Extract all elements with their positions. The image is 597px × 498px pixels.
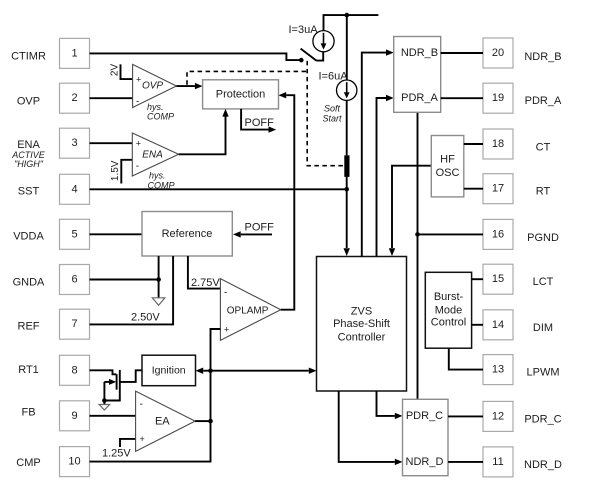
svg-text:16: 16 xyxy=(492,228,504,240)
svg-text:Reference: Reference xyxy=(162,228,213,240)
svg-text:ZVS: ZVS xyxy=(351,306,372,318)
wire CTIMR from pin1 to switch xyxy=(90,53,302,60)
current source I1 I=3uA xyxy=(313,31,334,52)
wire VDDA pin5 to Reference xyxy=(90,233,143,235)
block Protection xyxy=(203,80,279,109)
svg-text:"HIGH": "HIGH" xyxy=(14,159,44,169)
wire NDR_B to pin20 xyxy=(441,52,483,54)
junction PGND node xyxy=(415,232,420,237)
wire PDR_A box down to PDR_C box with PGND branch xyxy=(417,112,419,399)
pin 18 CT xyxy=(483,129,513,159)
wire Q1 bulk down xyxy=(103,382,105,405)
wire Burst to LCT pin15 xyxy=(472,278,483,280)
wire 1.5V reference stub to ENA minus input xyxy=(121,160,132,184)
wire ENA pin3 input xyxy=(90,142,133,144)
transistor Q1 gate bar xyxy=(116,374,118,390)
svg-text:17: 17 xyxy=(492,183,504,195)
svg-text:PDR_C: PDR_C xyxy=(406,410,443,422)
svg-text:1.25V: 1.25V xyxy=(102,448,131,460)
wire ZVS to NDR_B driver xyxy=(362,53,386,257)
junction EA output node xyxy=(208,419,213,424)
block PDR_C NDR_D drivers xyxy=(403,399,449,475)
pin 11 NDR_D xyxy=(483,447,513,477)
wire bar to SST node xyxy=(346,177,348,189)
transistor Q1 channel bar xyxy=(119,370,121,394)
wire Burst to DIM pin14 xyxy=(472,324,483,326)
svg-text:NDR_B: NDR_B xyxy=(401,47,438,59)
pin 20 NDR_B xyxy=(483,38,513,68)
svg-text:LPWM: LPWM xyxy=(527,367,560,379)
svg-text:RT1: RT1 xyxy=(18,364,39,376)
wire switch to current source I1 xyxy=(316,52,323,61)
pin 9 FB xyxy=(60,401,90,431)
wire 2.50V Reference to REF pin7 xyxy=(90,256,174,324)
svg-text:18: 18 xyxy=(492,138,504,150)
ground symbol analog xyxy=(152,298,165,306)
svg-text:15: 15 xyxy=(492,273,504,285)
svg-text:9: 9 xyxy=(71,410,77,422)
wire node to ZVS left input xyxy=(211,370,309,372)
svg-text:VDDA: VDDA xyxy=(13,230,44,242)
block Ignition xyxy=(142,355,196,386)
svg-text:Controller: Controller xyxy=(338,331,386,343)
svg-text:Burst-: Burst- xyxy=(434,291,464,303)
pin 15 LCT xyxy=(483,264,513,294)
op-amp comparator ENA xyxy=(132,133,178,176)
block Reference xyxy=(142,212,232,257)
wire HF OSC to ZVS input xyxy=(392,166,431,248)
svg-text:HF: HF xyxy=(440,154,455,166)
wire Q1 drain to Ignition xyxy=(120,370,142,382)
pin 7 REF xyxy=(60,309,90,339)
wire EA output to node xyxy=(195,420,210,422)
pin 6 GNDA xyxy=(60,265,90,295)
svg-text:13: 13 xyxy=(492,364,504,376)
svg-text:1.5V: 1.5V xyxy=(110,160,121,181)
svg-text:-: - xyxy=(224,288,227,299)
svg-text:RT: RT xyxy=(536,186,551,198)
dashed wire OVP output to switch control and bar xyxy=(187,71,307,84)
svg-text:NDR_B: NDR_B xyxy=(524,51,561,63)
svg-text:I=6uA: I=6uA xyxy=(319,71,349,83)
pin 3 ENA xyxy=(60,128,90,158)
svg-text:Start: Start xyxy=(322,114,342,124)
svg-text:OSC: OSC xyxy=(436,167,460,179)
svg-text:CMP: CMP xyxy=(16,457,40,469)
svg-text:Control: Control xyxy=(431,317,466,329)
pin 16 PGND xyxy=(483,219,513,249)
svg-text:2.50V: 2.50V xyxy=(131,312,160,324)
svg-text:2V: 2V xyxy=(110,64,121,77)
svg-text:20: 20 xyxy=(492,47,504,59)
block NDR_B PDR_A drivers xyxy=(394,37,441,113)
junction switch left terminal xyxy=(299,58,304,63)
svg-text:11: 11 xyxy=(492,456,503,468)
wire FB pin9 to EA minus xyxy=(90,415,136,417)
svg-text:GNDA: GNDA xyxy=(13,277,45,289)
svg-text:14: 14 xyxy=(492,319,504,331)
svg-text:+: + xyxy=(140,434,145,444)
svg-text:hys.: hys. xyxy=(149,170,166,180)
wire RT1 pin8 to gate xyxy=(90,370,117,374)
svg-text:OVP: OVP xyxy=(142,81,163,92)
svg-text:POFF: POFF xyxy=(245,222,275,234)
wire 1.25V stub to EA plus xyxy=(120,439,136,447)
svg-text:+: + xyxy=(136,139,141,149)
wire OPLAMP plus stub to CMP column xyxy=(211,329,221,371)
svg-text:OVP: OVP xyxy=(17,95,40,107)
block HF OSC xyxy=(431,136,464,197)
wire HF OSC to RT pin17 xyxy=(464,188,483,190)
block Burst-Mode Control xyxy=(425,272,471,348)
svg-text:EA: EA xyxy=(155,416,170,428)
svg-text:ENA: ENA xyxy=(142,149,163,160)
wire SST from pin4 xyxy=(90,188,347,190)
svg-text:12: 12 xyxy=(492,410,504,422)
wire ZVS to PDR_A driver xyxy=(377,98,387,257)
ground symbol Q1 xyxy=(99,405,109,411)
wire rail to current source I2 xyxy=(346,15,348,80)
wire HF OSC to CT pin18 xyxy=(464,143,483,145)
svg-text:7: 7 xyxy=(71,318,77,330)
svg-text:SST: SST xyxy=(18,185,40,197)
transistor Q1 bulk arrow xyxy=(104,381,109,383)
wire VDD rail top xyxy=(324,15,379,31)
svg-text:COMP: COMP xyxy=(147,112,174,122)
svg-text:4: 4 xyxy=(71,183,77,195)
svg-text:Protection: Protection xyxy=(216,88,266,100)
wire ENA output to Protection bottom xyxy=(179,117,226,155)
wire 2.75V Reference to OPLAMP minus xyxy=(188,256,221,289)
svg-text:FB: FB xyxy=(21,406,35,418)
wire OVP output to Protection xyxy=(176,85,195,87)
wire OPLAMP output up to Protection right input xyxy=(281,95,295,310)
svg-text:2.75V: 2.75V xyxy=(191,277,220,289)
pin 5 VDDA xyxy=(60,219,90,249)
junction SST node xyxy=(344,187,349,192)
pin 8 RT1 xyxy=(60,355,90,385)
op-amp comparator OVP xyxy=(133,64,177,107)
svg-text:NDR_D: NDR_D xyxy=(524,459,562,471)
svg-text:Ignition: Ignition xyxy=(152,365,186,377)
svg-text:LCT: LCT xyxy=(533,276,554,288)
svg-text:COMP: COMP xyxy=(148,180,175,190)
pin 1 CTIMR xyxy=(60,38,90,68)
wire Reference to ground xyxy=(158,256,160,298)
svg-text:+: + xyxy=(136,75,141,85)
pin 17 RT xyxy=(483,174,513,204)
wire ZVS to PDR_C driver xyxy=(377,391,395,416)
wire PGND node to pin16 xyxy=(418,233,484,235)
wire PDR_A to pin19 xyxy=(441,97,483,99)
svg-text:PGND: PGND xyxy=(527,232,559,244)
svg-text:I=3uA: I=3uA xyxy=(289,24,319,36)
svg-text:Phase-Shift: Phase-Shift xyxy=(333,318,390,330)
pin 19 PDR_A xyxy=(483,83,513,113)
junction GNDA node xyxy=(156,277,161,282)
svg-text:OPLAMP: OPLAMP xyxy=(227,305,269,316)
wire ZVS to NDR_D driver xyxy=(339,391,395,462)
junction Q1 source node xyxy=(102,398,107,403)
pin 13 LPWM xyxy=(483,355,513,385)
svg-text:10: 10 xyxy=(68,456,80,468)
svg-text:3: 3 xyxy=(71,137,77,149)
svg-text:REF: REF xyxy=(18,321,40,333)
svg-text:2: 2 xyxy=(71,92,77,104)
svg-text:Mode: Mode xyxy=(435,304,463,316)
pin 4 SST xyxy=(60,174,90,204)
wire SST node to ZVS input xyxy=(346,189,348,248)
svg-text:-: - xyxy=(140,399,143,410)
svg-text:CT: CT xyxy=(536,142,551,154)
current source I2 I=6uA xyxy=(337,80,357,100)
wire NDR_D to pin11 xyxy=(448,461,483,463)
junction ignition node xyxy=(208,368,213,373)
junction VDD rail xyxy=(345,13,350,18)
svg-text:-: - xyxy=(136,96,139,107)
svg-text:hys.: hys. xyxy=(147,102,164,112)
wire Burst to LPWM pin13 xyxy=(449,348,483,369)
wire OVP pin2 input xyxy=(90,97,133,99)
svg-text:1: 1 xyxy=(71,47,77,59)
svg-text:PDR_A: PDR_A xyxy=(525,95,562,107)
pin 2 OVP xyxy=(60,83,90,113)
switch S1 blade xyxy=(301,49,317,61)
svg-text:CTIMR: CTIMR xyxy=(11,51,46,63)
wire 2V reference stub to OVP plus input xyxy=(121,64,133,79)
svg-text:Soft: Soft xyxy=(324,104,341,114)
pin 12 PDR_C xyxy=(483,401,513,431)
pin 10 CMP xyxy=(60,447,90,477)
wire POFF output of Protection xyxy=(241,109,268,130)
wire I2 to soft-start bar xyxy=(346,100,348,155)
svg-text:5: 5 xyxy=(71,228,77,240)
soft-start discharge bar xyxy=(344,155,349,177)
svg-text:PDR_A: PDR_A xyxy=(401,92,438,104)
wire PDR_C to pin12 xyxy=(448,415,483,417)
svg-text:PDR_C: PDR_C xyxy=(524,413,561,425)
wire Q1 source to ground xyxy=(104,393,119,400)
svg-text:+: + xyxy=(224,325,229,335)
wire POFF into Reference xyxy=(241,233,272,235)
svg-text:19: 19 xyxy=(492,92,504,104)
svg-text:-: - xyxy=(136,161,139,172)
wire node column down to CMP xyxy=(90,371,211,462)
pin 14 DIM xyxy=(483,310,513,340)
op-amp EA xyxy=(136,391,196,451)
wire Ignition input arrow from node xyxy=(203,370,210,372)
svg-text:6: 6 xyxy=(71,274,77,286)
svg-text:8: 8 xyxy=(71,364,77,376)
svg-text:NDR_D: NDR_D xyxy=(406,456,444,468)
wire GNDA pin6 to ground xyxy=(90,279,159,281)
svg-text:POFF: POFF xyxy=(245,117,275,129)
op-amp OPLAMP xyxy=(220,279,280,341)
svg-text:DIM: DIM xyxy=(533,322,553,334)
block ZVS Phase-Shift Controller xyxy=(317,257,407,392)
